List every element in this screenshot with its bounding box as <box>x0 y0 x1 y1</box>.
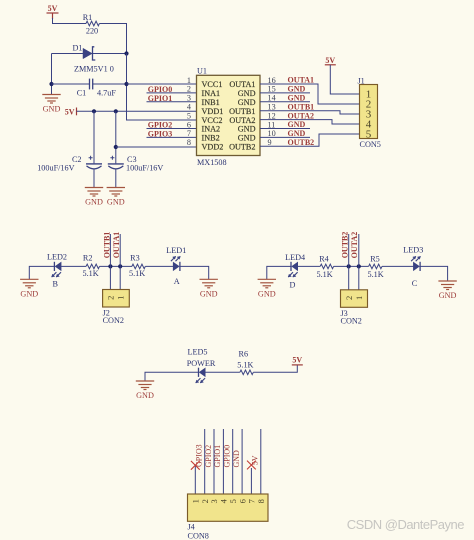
wire 5V rail to U1 pin4 VDD1 <box>77 110 197 112</box>
junction C1/U1 pin1 node <box>124 82 128 86</box>
svg-text:GND: GND <box>288 120 306 129</box>
capacitor C2 (electrolytic) <box>86 156 102 169</box>
wire R2 to R3 <box>100 265 133 267</box>
ground (LED1) <box>200 279 218 288</box>
svg-text:5: 5 <box>187 111 191 120</box>
svg-text:GND: GND <box>439 291 457 300</box>
junction OUTA1 tap <box>118 264 122 268</box>
svg-text:4.7uF: 4.7uF <box>97 89 116 98</box>
svg-text:5V: 5V <box>48 4 58 13</box>
svg-text:GND: GND <box>238 89 256 98</box>
wire GND to LED5 <box>145 372 199 380</box>
svg-text:GND: GND <box>107 198 125 207</box>
svg-text:INA2: INA2 <box>202 125 221 134</box>
wire to U1 pin1 VCC1 <box>127 83 197 85</box>
svg-text:D: D <box>290 280 296 289</box>
svg-text:5V: 5V <box>325 56 335 65</box>
ground (C2) <box>85 188 103 197</box>
svg-text:13: 13 <box>268 103 276 112</box>
LED LED4 <box>288 262 298 277</box>
junction U1 pin8 branch <box>114 145 118 149</box>
svg-text:J4: J4 <box>188 523 195 532</box>
wire LED1 to GND <box>180 266 209 279</box>
junction OUTB1 tap <box>108 264 112 268</box>
svg-text:GND: GND <box>238 98 256 107</box>
svg-text:R5: R5 <box>370 254 380 263</box>
svg-text:15: 15 <box>268 85 276 94</box>
svg-text:A: A <box>174 277 180 286</box>
svg-text:5: 5 <box>366 129 372 141</box>
junction C1 left <box>49 82 53 86</box>
no-ERC X mark (J4 pin1) <box>191 461 200 470</box>
svg-text:VDD1: VDD1 <box>202 107 224 116</box>
capacitor C3 (electrolytic) <box>108 156 124 169</box>
svg-text:7: 7 <box>187 129 191 138</box>
connector J3 body <box>341 290 368 308</box>
svg-text:OUTA1: OUTA1 <box>112 232 121 259</box>
wire C1 left lead <box>52 83 90 85</box>
svg-text:CON2: CON2 <box>103 316 124 325</box>
svg-text:5V: 5V <box>251 455 260 465</box>
svg-text:GND: GND <box>258 290 276 299</box>
svg-text:220: 220 <box>86 27 98 36</box>
wire down to C2 <box>93 111 95 163</box>
svg-text:GND: GND <box>136 391 154 400</box>
wire J4 pin6 <box>241 429 243 494</box>
svg-text:5.1K: 5.1K <box>237 361 253 370</box>
ground (LED3) <box>438 281 456 290</box>
svg-text:POWER: POWER <box>187 359 216 368</box>
wire OUTA2 to J1 pin4 <box>260 120 360 124</box>
svg-text:6: 6 <box>187 120 191 129</box>
wire R3 to LED1 <box>145 265 173 267</box>
svg-text:9: 9 <box>268 138 272 147</box>
svg-text:GND: GND <box>238 134 256 143</box>
svg-text:GND: GND <box>288 85 306 94</box>
svg-text:INA1: INA1 <box>202 89 221 98</box>
wire GND stub pin15 <box>260 92 310 94</box>
ground (LED4) <box>258 279 276 288</box>
wire OUTB1 to J1 pin3 <box>260 111 360 114</box>
ground (top left rail) <box>42 95 60 104</box>
wire R6 to 5V <box>253 365 297 372</box>
wire GND rail to D1 anode <box>52 53 84 55</box>
svg-text:GPIO2: GPIO2 <box>148 121 172 130</box>
svg-text:R6: R6 <box>239 350 249 359</box>
op-amp U1 body (MX1508 driver) <box>197 75 261 155</box>
wire R4 to R5 <box>334 265 369 267</box>
resistor R4 <box>320 264 333 269</box>
wire net GPIO2 to U1 pin6 <box>147 128 197 130</box>
svg-text:1: 1 <box>115 296 125 300</box>
ground (LED5) <box>136 381 154 390</box>
connector J1 body <box>360 85 378 139</box>
svg-text:5.1K: 5.1K <box>83 269 99 278</box>
svg-text:8: 8 <box>187 138 191 147</box>
svg-text:OUTA2: OUTA2 <box>288 111 315 120</box>
wire D1 anode down to GND <box>51 54 53 95</box>
svg-text:GPIO0: GPIO0 <box>223 445 232 468</box>
wire to U1 pin8 VDD2 <box>116 146 197 148</box>
svg-text:CON5: CON5 <box>360 140 381 149</box>
wire OUTA1 vertical to J2 pin1 <box>119 234 121 290</box>
svg-text:GPIO1: GPIO1 <box>213 445 222 468</box>
svg-text:GPIO3: GPIO3 <box>148 130 172 139</box>
wire J4 pin1 stub <box>194 465 196 494</box>
svg-text:12: 12 <box>268 111 276 120</box>
svg-text:LED3: LED3 <box>403 246 423 255</box>
wire net GPIO0 to U1 pin2 <box>147 92 197 94</box>
wire J4 pin4 <box>222 429 224 494</box>
svg-text:OUTB1: OUTB1 <box>102 232 111 259</box>
svg-text:GND: GND <box>85 198 103 207</box>
no-ERC X mark (J4 pin7) <box>247 461 256 470</box>
svg-text:5.1K: 5.1K <box>368 270 384 279</box>
junction OUTA2 tap <box>357 264 361 268</box>
svg-text:14: 14 <box>268 94 276 103</box>
svg-text:LED5: LED5 <box>188 347 208 356</box>
wire 5V to R1 <box>53 18 87 24</box>
svg-text:3: 3 <box>187 94 191 103</box>
wire R5 to LED3 <box>382 265 413 267</box>
svg-text:5.1K: 5.1K <box>129 269 145 278</box>
junction C2 top <box>92 109 96 113</box>
diode D1 (zener ZMM5V1) <box>83 47 95 60</box>
wire net GPIO3 to U1 pin7 <box>147 136 197 138</box>
wire C3 to GND <box>115 169 117 187</box>
svg-text:5V: 5V <box>65 108 75 117</box>
wire GND to LED2 <box>29 266 54 279</box>
wire J4 pin5 <box>232 429 234 494</box>
wire node to U1 pin5 VCC2 <box>127 54 197 121</box>
svg-text:GND: GND <box>232 450 241 468</box>
svg-text:R3: R3 <box>130 254 140 263</box>
svg-text:VDD2: VDD2 <box>202 143 224 152</box>
wire OUTB2 vertical to J3 pin2 <box>348 234 350 290</box>
svg-text:8: 8 <box>256 499 266 503</box>
svg-text:GPIO3: GPIO3 <box>195 444 204 467</box>
wire LED3 to GND <box>420 266 448 280</box>
svg-text:R1: R1 <box>83 13 93 22</box>
svg-text:OUTA2: OUTA2 <box>229 116 255 125</box>
LED LED1 <box>171 256 180 271</box>
wire 5V to J1 pin1 <box>330 65 359 94</box>
svg-text:OUTB2: OUTB2 <box>229 143 255 152</box>
svg-text:CON8: CON8 <box>188 531 209 540</box>
wire OUTA2 vertical to J3 pin1 <box>358 234 360 290</box>
svg-text:4: 4 <box>187 103 191 112</box>
svg-text:GND: GND <box>200 290 218 299</box>
svg-text:2: 2 <box>344 296 354 300</box>
wire LED2 to R2 <box>61 265 86 267</box>
svg-text:J1: J1 <box>358 77 365 86</box>
svg-text:INB2: INB2 <box>202 134 220 143</box>
wire R1 to D1 cathode node <box>99 24 126 54</box>
LED LED5 <box>196 368 206 383</box>
svg-text:B: B <box>52 279 58 288</box>
svg-text:1: 1 <box>354 296 364 300</box>
svg-text:C1: C1 <box>77 89 87 98</box>
capacitor C1 <box>90 79 93 90</box>
wire J4 pin7 stub <box>250 468 252 494</box>
svg-text:GND: GND <box>288 94 306 103</box>
connector J4 body <box>188 494 269 521</box>
junction C3 top <box>114 109 118 113</box>
wire down to C3 <box>115 111 117 163</box>
svg-text:100uF/16V: 100uF/16V <box>126 164 163 173</box>
wire GND to LED4 <box>267 266 291 279</box>
svg-text:2: 2 <box>106 296 116 300</box>
wire OUTB1 vertical to J2 pin2 <box>109 234 111 290</box>
wire net GPIO1 to U1 pin3 <box>147 101 197 103</box>
wire GND stub pin14 <box>260 101 310 103</box>
svg-text:GND: GND <box>238 125 256 134</box>
wire LED4 to R4 <box>298 265 321 267</box>
junction D1/R1 node <box>124 51 128 55</box>
svg-text:R4: R4 <box>319 254 329 263</box>
ground (C3) <box>107 188 125 197</box>
svg-text:ZMM5V1 0: ZMM5V1 0 <box>74 65 114 74</box>
svg-text:OUTB2: OUTB2 <box>288 138 315 147</box>
wire GND stub pin11 <box>260 128 310 130</box>
wire C1 right lead <box>93 83 127 85</box>
svg-text:OUTB1: OUTB1 <box>288 102 315 111</box>
svg-text:2: 2 <box>187 85 191 94</box>
svg-text:OUTA2: OUTA2 <box>350 232 359 259</box>
wire D1 cathode <box>93 53 127 55</box>
svg-text:GND: GND <box>288 129 306 138</box>
svg-text:OUTB1: OUTB1 <box>229 107 255 116</box>
svg-text:MX1508: MX1508 <box>197 158 227 167</box>
svg-text:U1: U1 <box>197 67 207 76</box>
wire GND stub pin10 <box>260 136 310 138</box>
svg-text:LED4: LED4 <box>285 253 305 262</box>
svg-text:VCC1: VCC1 <box>202 80 223 89</box>
svg-text:16: 16 <box>268 76 276 85</box>
junction OUTB2 tap <box>347 264 351 268</box>
connector J2 body <box>103 290 130 308</box>
wire LED5 to R6 <box>205 371 240 373</box>
LED LED3 <box>411 256 420 271</box>
svg-text:GPIO0: GPIO0 <box>148 85 172 94</box>
svg-text:10: 10 <box>268 129 276 138</box>
svg-text:11: 11 <box>268 120 276 129</box>
svg-text:D1: D1 <box>72 44 82 53</box>
wire C2 to GND <box>93 169 95 187</box>
svg-text:100uF/16V: 100uF/16V <box>37 164 74 173</box>
resistor R6 <box>240 370 253 375</box>
svg-text:INB1: INB1 <box>202 98 220 107</box>
svg-text:5V: 5V <box>292 355 302 364</box>
svg-text:C: C <box>412 279 418 288</box>
LED LED2 <box>52 262 62 277</box>
svg-text:LED2: LED2 <box>47 253 67 262</box>
svg-text:LED1: LED1 <box>166 246 186 255</box>
svg-text:OUTA1: OUTA1 <box>288 76 315 85</box>
resistor R2 <box>86 264 99 269</box>
svg-text:1: 1 <box>187 76 191 85</box>
wire J4 pin8 <box>260 429 262 494</box>
svg-text:VCC2: VCC2 <box>202 116 223 125</box>
wire OUTB2 to J1 pin5 <box>260 134 360 146</box>
resistor R5 <box>369 264 382 269</box>
svg-text:GND: GND <box>43 105 61 114</box>
svg-text:5.1K: 5.1K <box>317 270 333 279</box>
svg-text:GND: GND <box>20 290 38 299</box>
resistor R1 <box>86 21 99 26</box>
svg-text:OUTB2: OUTB2 <box>341 232 350 259</box>
wire J4 pin3 <box>213 429 215 494</box>
resistor R3 <box>132 264 145 269</box>
wire J4 pin2 <box>204 429 206 494</box>
svg-text:CON2: CON2 <box>341 317 362 326</box>
ground (LED2) <box>20 279 38 288</box>
svg-text:OUTA1: OUTA1 <box>229 80 255 89</box>
wire OUTA1 to J1 pin2 <box>260 84 360 104</box>
svg-text:GPIO1: GPIO1 <box>148 94 172 103</box>
svg-text:GPIO2: GPIO2 <box>204 445 213 468</box>
svg-text:R2: R2 <box>83 254 93 263</box>
svg-text:CSDN @DantePayne: CSDN @DantePayne <box>347 517 464 532</box>
